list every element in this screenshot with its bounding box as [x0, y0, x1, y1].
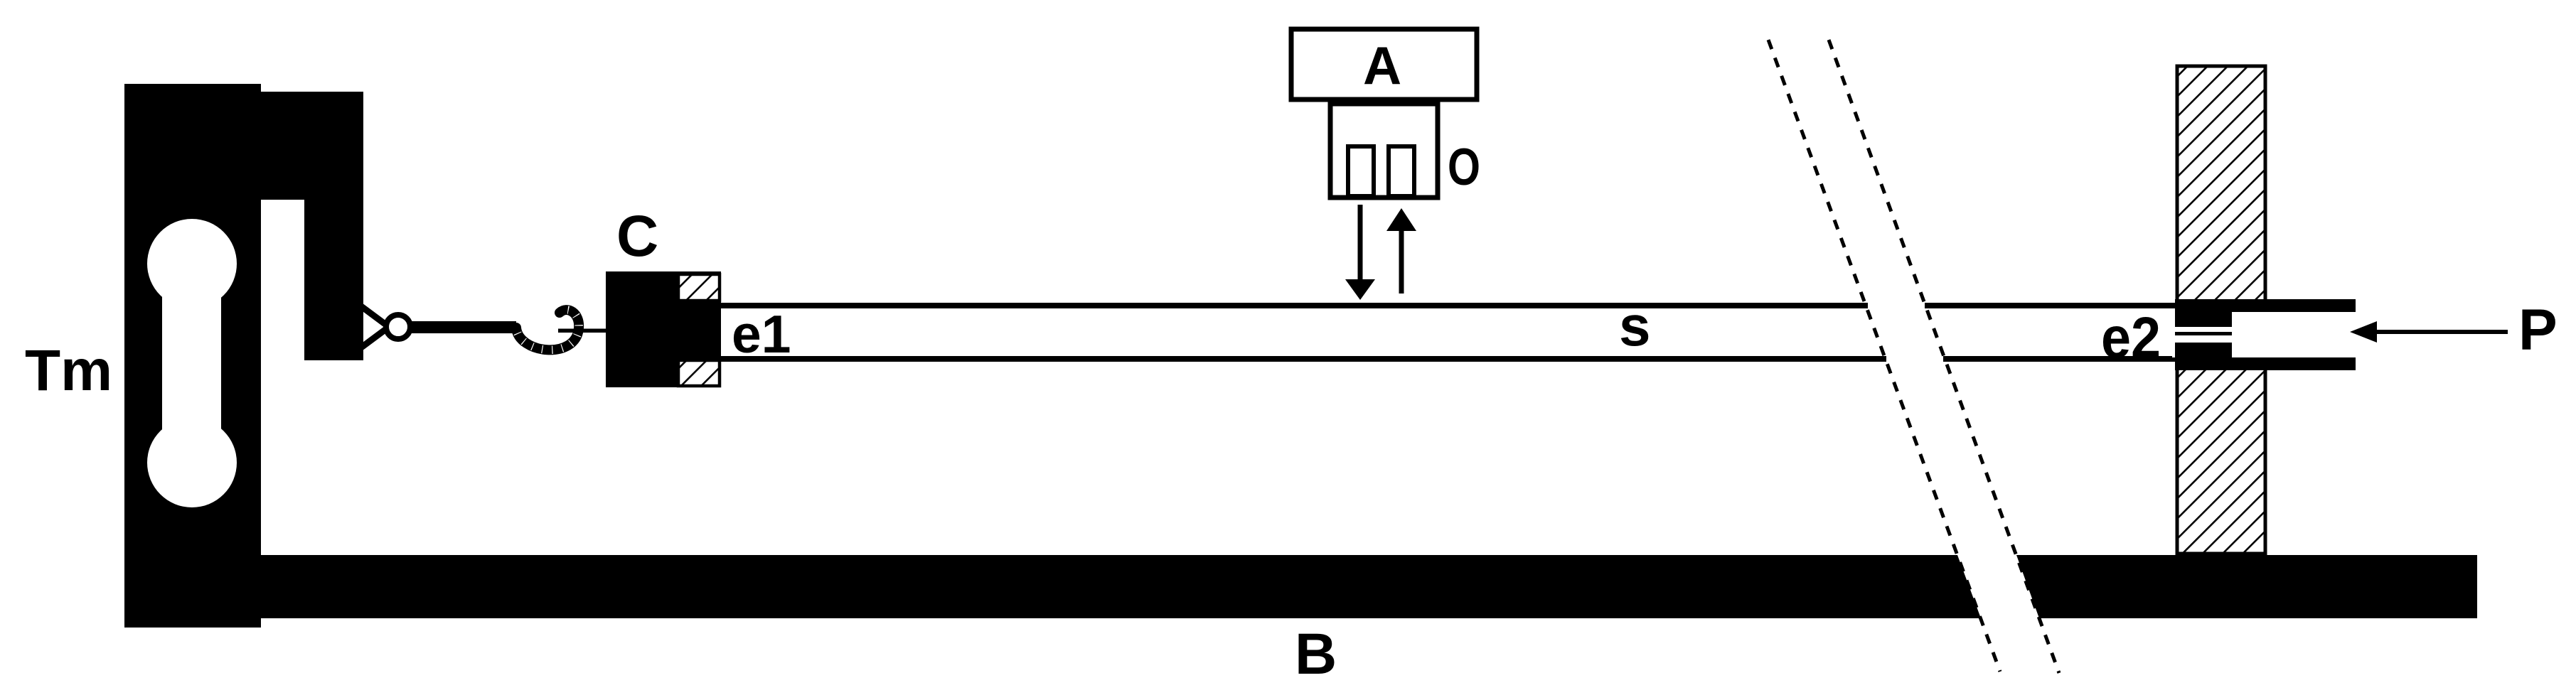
load cell Tm main column [124, 84, 261, 628]
break line 2 [1829, 40, 2059, 673]
specimen S bottom wall right segment [1943, 356, 2175, 362]
fitting upper plug [2175, 306, 2232, 327]
transducer slot 2 [1389, 146, 1414, 196]
transducer body O [1330, 104, 1438, 198]
specimen S top wall right segment [1925, 303, 2175, 308]
svg-text:O: O [1448, 139, 1480, 196]
force arrow P [2350, 321, 2508, 343]
load cell upper arm [259, 92, 363, 360]
wall channel [2172, 312, 2357, 357]
svg-text:P: P [2518, 298, 2558, 362]
reflected beam arrow (up) [1386, 208, 1416, 294]
link bar [411, 321, 516, 333]
fitting pin line [2175, 332, 2232, 335]
fitting lower plug [2175, 343, 2232, 363]
connecting rod [558, 329, 608, 333]
svg-text:e2: e2 [2101, 306, 2161, 370]
support wall (hatched) [2177, 66, 2265, 554]
svg-text:A: A [1363, 36, 1401, 95]
pivot ring [386, 315, 410, 339]
fitting lower bar [2175, 357, 2356, 370]
clamp jaw top [678, 274, 720, 301]
svg-text:Tm: Tm [25, 338, 112, 403]
specimen S top wall left segment [721, 303, 1868, 308]
svg-text:B: B [1295, 622, 1337, 686]
pivot bowtie [361, 306, 392, 348]
clamp C body [606, 271, 721, 387]
emitted beam arrow (down) [1345, 205, 1375, 300]
hook [516, 310, 579, 350]
specimen S bottom wall left segment [721, 356, 1886, 362]
svg-text:C: C [616, 204, 658, 269]
base bar B left segment [258, 555, 1981, 618]
clamp jaw bottom [678, 360, 720, 386]
svg-text:s: s [1619, 294, 1651, 357]
svg-text:e1: e1 [732, 304, 791, 364]
break line 1 [1768, 40, 2000, 672]
transducer slot 1 [1348, 146, 1374, 196]
fitting upper bar [2175, 299, 2356, 312]
load cell dumbbell cutout [147, 219, 237, 507]
base bar B right segment [2016, 555, 2477, 618]
actuator box A [1291, 29, 1477, 99]
